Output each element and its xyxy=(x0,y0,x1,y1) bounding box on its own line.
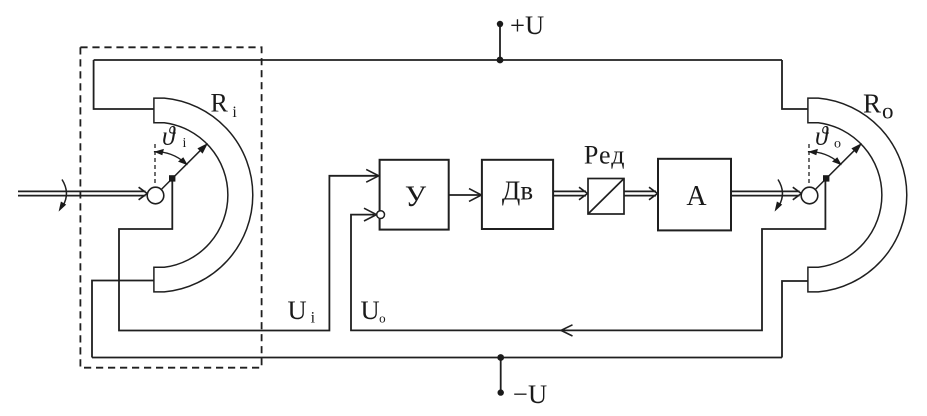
arrowhead shaft into reducer xyxy=(579,187,588,200)
svg-text:У: У xyxy=(405,180,427,213)
wire top rail +U xyxy=(94,59,782,61)
svg-text:i: i xyxy=(183,136,187,151)
terminal dot -U xyxy=(498,389,504,395)
shaft input (double line) xyxy=(18,191,146,195)
wire Ui: left wiper to amplifier input xyxy=(119,176,378,331)
arrowhead into motor xyxy=(469,189,481,202)
arrowheads (open chevrons) xyxy=(139,169,802,336)
inverting input circle on У xyxy=(377,211,385,219)
dashed enclosure (input sensor box) xyxy=(80,47,261,367)
svg-text:−U: −U xyxy=(513,379,547,409)
amplifier block U (У) xyxy=(380,160,449,230)
output actuator block A xyxy=(658,159,731,231)
wire Uo: right wiper feedback to amplifier xyxy=(351,181,825,331)
svg-text:+U: +U xyxy=(510,10,544,40)
arrowhead into amp input 2 xyxy=(364,208,377,221)
shaft A to output pot xyxy=(731,191,800,195)
terminal dot +U xyxy=(497,21,503,27)
wire left pot bottom terminal xyxy=(92,281,154,358)
shaft reducer to A xyxy=(624,191,656,195)
svg-text:о: о xyxy=(834,137,841,152)
angle arc theta-i xyxy=(154,152,186,164)
junction dot +U rail xyxy=(497,57,504,64)
wiper tap square dot Ri xyxy=(169,175,175,181)
wire right pot bottom terminal xyxy=(782,281,808,358)
wire -U stub xyxy=(500,358,502,393)
wiper arm arrow Ri xyxy=(161,143,208,189)
wiper tap square dot Ro xyxy=(823,175,829,181)
rotation arrow input shaft xyxy=(59,180,67,212)
reference dashed line Ri xyxy=(154,144,156,185)
wire right pot top terminal xyxy=(782,60,808,109)
potentiometer Ri body xyxy=(154,98,253,292)
arrowhead feedback left arrow xyxy=(561,325,573,336)
reference dashed line Ro xyxy=(808,144,810,185)
junction dot -U rail xyxy=(497,354,504,361)
motor block Дв xyxy=(482,160,553,229)
wire left pot top terminal xyxy=(94,60,154,109)
wiper pivot circle Ro xyxy=(801,187,818,204)
arrowhead shaft into left wiper xyxy=(139,187,148,200)
angle arc theta-o xyxy=(808,152,840,164)
svg-text:А: А xyxy=(686,181,707,212)
wire +U stub xyxy=(499,24,501,60)
reducer box Ред xyxy=(588,179,624,215)
wire bottom rail -U xyxy=(92,357,782,359)
svg-text:ϑ: ϑ xyxy=(815,122,829,151)
svg-text:Ред: Ред xyxy=(584,141,626,170)
potentiometer Ro body xyxy=(808,98,907,292)
shaft motor to reducer xyxy=(553,191,586,195)
wiper pivot circle Ri xyxy=(147,187,164,204)
arrowhead into amp input 1 xyxy=(366,169,379,182)
arrowhead shaft into right wiper xyxy=(793,187,802,200)
wiper arm arrow Ro xyxy=(815,143,862,189)
wire amplifier to motor xyxy=(449,194,480,196)
rotation arrow output shaft xyxy=(775,180,783,212)
arrowhead shaft into A xyxy=(649,187,658,200)
svg-text:Дв: Дв xyxy=(502,176,533,206)
svg-text:ϑ: ϑ xyxy=(162,122,176,151)
